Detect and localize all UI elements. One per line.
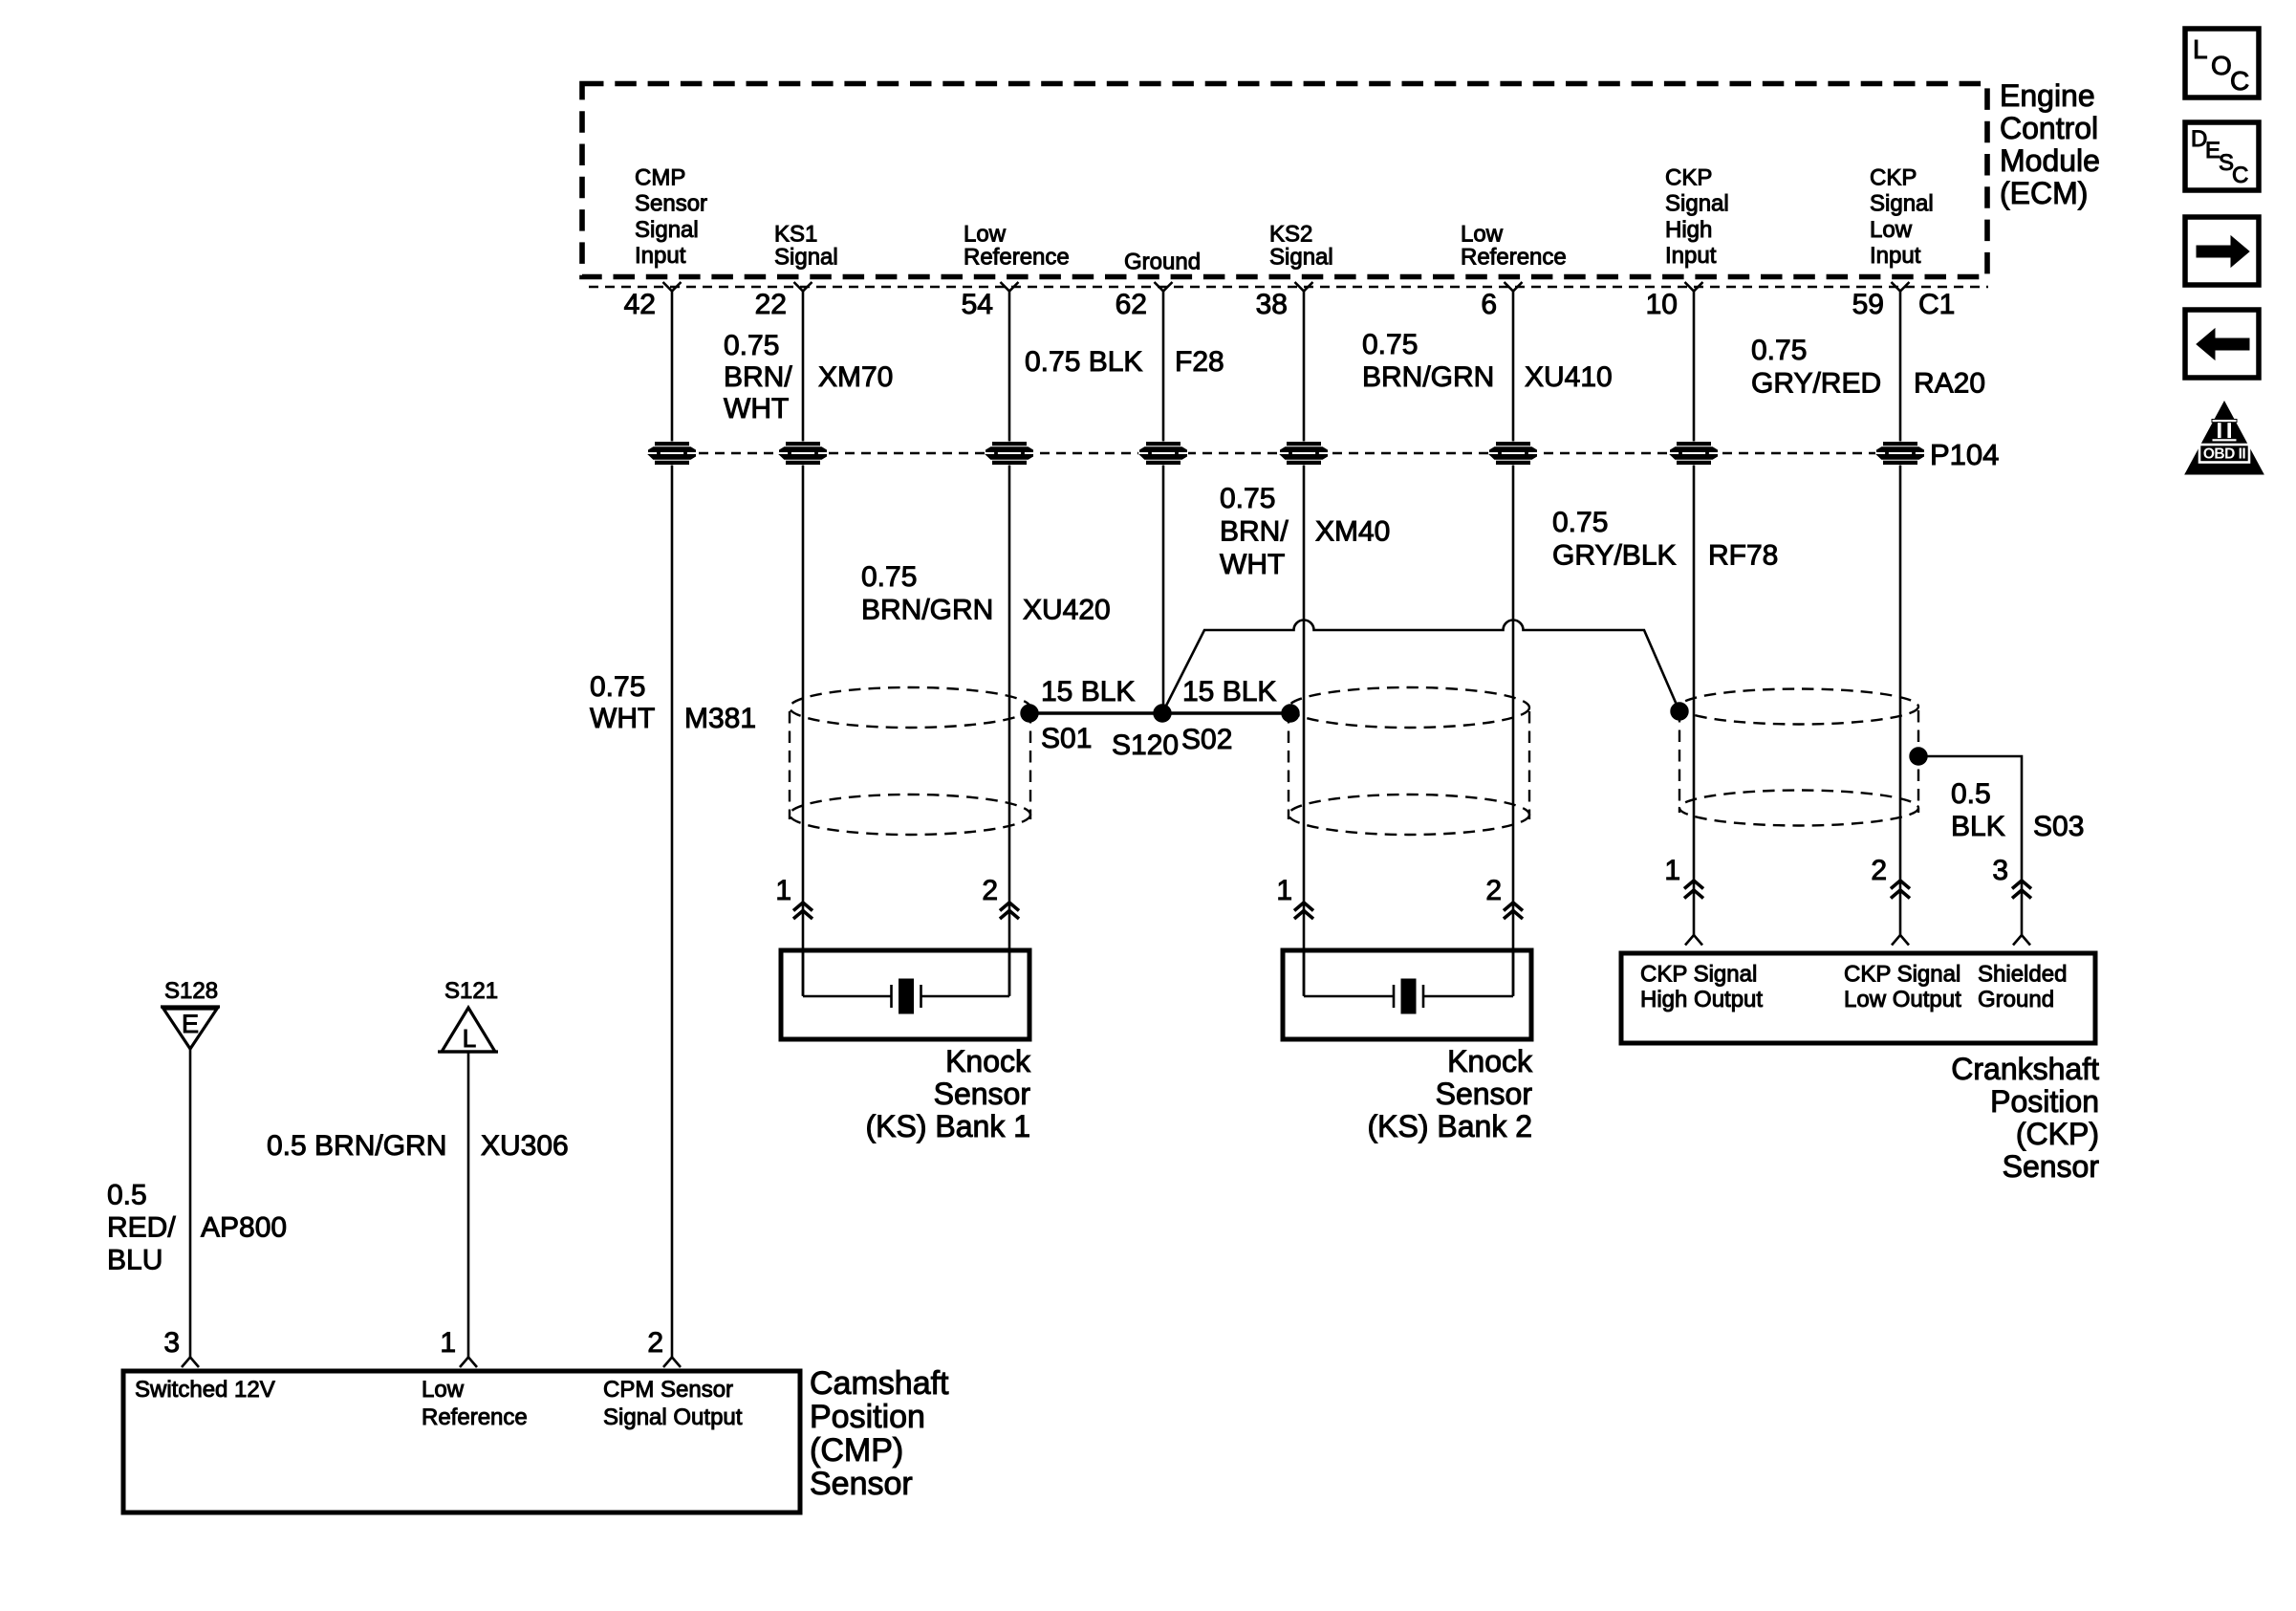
KS2 pin 1 number: [1276, 875, 1292, 906]
svg-text:L: L: [2193, 34, 2208, 64]
svg-text:BRN/: BRN/: [1220, 516, 1289, 548]
svg-text:Ground: Ground: [1978, 987, 2054, 1012]
CKP pin 1 label CKP Signal High Output: [1640, 962, 1763, 1013]
svg-text:1: 1: [1664, 855, 1680, 886]
circuit number F28: [1175, 346, 1224, 378]
ECM pin 42 terminal chevron: [663, 282, 682, 292]
svg-text:XU420: XU420: [1023, 595, 1111, 626]
CKP pin 2 number: [1871, 855, 1887, 886]
inline connector double chevron on CKP wire x=1772: [1684, 881, 1703, 899]
CKP connector male terminal chevron x=1988: [1892, 935, 1909, 946]
svg-text:6: 6: [1481, 289, 1497, 320]
CMP sensor name label: [810, 1365, 949, 1502]
ECM pin 54 terminal chevron: [1001, 282, 1019, 292]
svg-text:1: 1: [775, 875, 791, 906]
svg-text:(CMP): (CMP): [810, 1432, 903, 1469]
svg-text:Low: Low: [422, 1377, 465, 1403]
svg-text:0.5: 0.5: [1951, 778, 1991, 810]
KS1 pin 2 number: [982, 875, 998, 906]
svg-text:Control: Control: [2000, 111, 2098, 145]
ECM pin 59 function label CKP Signal Low Input: [1870, 165, 1934, 270]
CKP cable shield (dashed cylinder): [1679, 689, 1918, 826]
svg-text:0.5: 0.5: [107, 1180, 147, 1211]
svg-text:Signal: Signal: [1870, 191, 1934, 217]
ECM pin 6 number label: [1481, 289, 1497, 320]
svg-text:CKP: CKP: [1870, 165, 1917, 191]
ECM pin 62 function label Ground: [1124, 250, 1201, 275]
splice S120 label: [1112, 729, 1179, 761]
grommet P104 on wire at x=1583: [1488, 442, 1538, 466]
svg-text:(ECM): (ECM): [2000, 176, 2088, 210]
splice pack S121 label: [444, 978, 498, 1004]
CMP pin 1 number: [440, 1327, 456, 1359]
svg-text:Position: Position: [810, 1399, 925, 1435]
svg-text:0.75: 0.75: [1220, 483, 1275, 514]
svg-text:XU410: XU410: [1525, 361, 1613, 393]
CKP pin 1 number: [1664, 855, 1680, 886]
svg-text:Signal: Signal: [1665, 191, 1729, 217]
CMP pin 3 number: [163, 1327, 180, 1359]
svg-text:C: C: [2232, 163, 2248, 188]
splice S01 label: [1041, 723, 1092, 754]
svg-text:XU306: XU306: [481, 1130, 569, 1162]
circuit number XU306: [481, 1130, 569, 1162]
ECM pin 59 terminal chevron: [1892, 282, 1910, 292]
svg-text:Module: Module: [2000, 143, 2100, 178]
svg-text:0.75: 0.75: [724, 330, 779, 361]
svg-text:BRN/GRN: BRN/GRN: [1362, 361, 1494, 393]
svg-text:Knock: Knock: [945, 1044, 1031, 1078]
svg-text:Reference: Reference: [422, 1404, 528, 1430]
svg-text:L: L: [463, 1024, 476, 1053]
ECM pin 38 function label KS2 Signal: [1269, 222, 1333, 271]
svg-text:0.75: 0.75: [1362, 329, 1418, 360]
svg-text:Input: Input: [635, 243, 686, 269]
circuit number RA20: [1914, 368, 1985, 400]
svg-text:15 BLK: 15 BLK: [1041, 676, 1135, 708]
wire XM70 0.75 BRN/WHT (KS1 signal, pin 22 to KS1): [802, 291, 805, 995]
wire AP800 0.5 RED/BLU (S128 to CMP pin 3): [189, 1049, 192, 1357]
KS1 cable shield (dashed cylinder): [790, 687, 1030, 835]
ECM module U1 dashed outline: [582, 84, 1987, 277]
svg-text:1: 1: [1276, 875, 1292, 906]
svg-text:Sensor: Sensor: [635, 191, 707, 217]
grommet P104 on wire at x=1364: [1279, 442, 1329, 466]
svg-text:F28: F28: [1175, 346, 1224, 378]
svg-text:S01: S01: [1041, 723, 1092, 754]
inline connector double chevron on wire x=840: [793, 903, 812, 919]
svg-text:High: High: [1665, 217, 1712, 243]
svg-text:O: O: [2211, 51, 2232, 80]
svg-text:Ground: Ground: [1124, 250, 1201, 275]
wire label 0.5 BLK (S03): [1951, 778, 2005, 842]
svg-text:22: 22: [755, 289, 787, 320]
svg-text:CKP Signal: CKP Signal: [1640, 962, 1757, 988]
svg-text:(KS) Bank 1: (KS) Bank 1: [865, 1109, 1030, 1143]
wire RF78 0.75 GRY/BLK (CKP high, pin 10 to CKP sensor): [1693, 291, 1696, 936]
wire label 15 BLK (left): [1041, 676, 1135, 708]
CKP pin 3 number: [1992, 855, 2008, 886]
grommet P104 on wire at x=1988: [1875, 442, 1925, 466]
CKP sensor name label: [1951, 1052, 2099, 1184]
svg-text:S121: S121: [444, 978, 498, 1004]
ECM pin 10 function label CKP Signal High Input: [1665, 165, 1729, 270]
svg-text:Input: Input: [1870, 243, 1921, 269]
KS2 pin 2 number: [1485, 875, 1502, 906]
CMP pin 3 male terminal chevron: [182, 1358, 199, 1368]
splice S01 dot: [1021, 705, 1038, 722]
svg-text:54: 54: [962, 289, 993, 320]
svg-text:Engine: Engine: [2000, 78, 2095, 113]
KS Bank 1 name label: [865, 1044, 1031, 1143]
inline connector double chevron on CKP wire x=2115: [2012, 881, 2031, 899]
svg-text:2: 2: [982, 875, 998, 906]
svg-text:59: 59: [1852, 289, 1884, 320]
inline connector double chevron on wire x=1056: [1000, 903, 1019, 919]
ECM pin 54 number label: [962, 289, 993, 320]
wire label 0.5 RED/BLU (AP800): [107, 1180, 176, 1276]
CKP connector male terminal chevron x=1772: [1685, 935, 1702, 946]
svg-text:2: 2: [1485, 875, 1502, 906]
splice S120 dot: [1154, 705, 1171, 722]
grommet label P104: [1930, 438, 1999, 471]
svg-text:Reference: Reference: [1461, 245, 1567, 271]
svg-text:C1: C1: [1918, 289, 1955, 320]
svg-text:Sensor: Sensor: [1436, 1077, 1533, 1111]
connector designator C1 label: [1918, 289, 1955, 320]
wire XU420 0.75 BRN/GRN (low reference, pin 54 to KS1): [1008, 291, 1011, 995]
ground G S128 label: [164, 978, 218, 1004]
svg-text:KS2: KS2: [1269, 222, 1312, 248]
wire label 0.75 GRY/RED (RA20): [1751, 335, 1881, 400]
wire label 0.75 BRN/WHT (XM70): [724, 330, 792, 425]
svg-text:Sensor: Sensor: [2003, 1149, 2100, 1184]
ECM pin 38 number label: [1256, 289, 1288, 320]
ECM pin 10 terminal chevron: [1685, 282, 1703, 292]
svg-text:0.75: 0.75: [861, 561, 917, 593]
circuit number XM70: [818, 361, 893, 393]
CKP pin 3 label Shielded Ground: [1978, 962, 2067, 1013]
svg-text:0.75: 0.75: [1751, 335, 1807, 366]
icon OBD II warning triangle: [2185, 402, 2264, 474]
svg-text:BLK: BLK: [1951, 811, 2005, 842]
circuit number RF78: [1708, 540, 1778, 572]
svg-text:10: 10: [1646, 289, 1678, 320]
shield junction dot S03 at CKP shield right: [1910, 748, 1927, 765]
ECM pin 42 function label CMP Sensor Signal Input: [635, 165, 707, 270]
KS2 cable shield (dashed cylinder): [1289, 687, 1529, 835]
svg-text:15 BLK: 15 BLK: [1182, 676, 1276, 708]
svg-text:Input: Input: [1665, 243, 1717, 269]
wire ground riser S120 to shield bus: [1162, 620, 1679, 714]
svg-text:S120: S120: [1112, 729, 1179, 761]
svg-text:Knock: Knock: [1447, 1044, 1533, 1078]
ECM name label: [2000, 78, 2100, 210]
grommet P104 on wire at x=840: [778, 442, 828, 466]
svg-text:Low: Low: [964, 222, 1007, 248]
svg-text:XM70: XM70: [818, 361, 893, 393]
svg-text:Signal: Signal: [1269, 245, 1333, 271]
knock sensor KS Bank 2 box with piezo element: [1283, 950, 1531, 1039]
icon forward arrow button: [2185, 217, 2259, 285]
wire label 0.5 BRN/GRN (XU306): [267, 1130, 446, 1162]
wire 15 BLK splice bus S01-S120-S02: [1029, 711, 1290, 715]
svg-text:Signal Output: Signal Output: [603, 1404, 743, 1430]
ECM pin 59 number label: [1852, 289, 1884, 320]
ECM pin 38 terminal chevron: [1295, 282, 1313, 292]
wire label 0.75 BRN/GRN (XU420): [861, 561, 993, 626]
wire XU410 0.75 BRN/GRN (low reference, pin 6 to KS2): [1512, 291, 1515, 995]
splice pack symbol S121 (triangle with L): [438, 1008, 498, 1053]
inline connector double chevron on wire x=1583: [1504, 903, 1523, 919]
ECM pin 10 number label: [1646, 289, 1678, 320]
svg-text:XM40: XM40: [1315, 516, 1390, 548]
grommet P104 on wire at x=1056: [985, 442, 1034, 466]
wire XM40 0.75 BRN/WHT (KS2 signal, pin 38 to KS2): [1303, 291, 1306, 995]
CKP pin 2 label CKP Signal Low Output: [1844, 962, 1961, 1013]
wire label 0.75 BRN/WHT (XM40): [1220, 483, 1289, 580]
ECM pin 42 number label: [624, 289, 656, 320]
crankshaft position CKP sensor box: [1621, 953, 2095, 1043]
wire S03 0.5 BLK (shield drain to CKP pin 3): [1918, 756, 2022, 936]
CMP pin 2 male terminal chevron: [663, 1358, 681, 1368]
svg-text:0.75 BLK: 0.75 BLK: [1025, 346, 1142, 378]
ECM connector C1 boundary dashed line: [589, 286, 1988, 288]
circuit number XU410: [1525, 361, 1613, 393]
svg-text:RED/: RED/: [107, 1212, 176, 1244]
svg-text:Low: Low: [1461, 222, 1504, 248]
svg-text:RF78: RF78: [1708, 540, 1778, 572]
svg-text:WHT: WHT: [590, 703, 655, 734]
svg-text:Reference: Reference: [964, 245, 1070, 271]
svg-text:S02: S02: [1181, 724, 1232, 755]
svg-text:Signal: Signal: [774, 245, 838, 271]
icon back arrow button: [2185, 310, 2259, 378]
svg-text:Switched 12V: Switched 12V: [135, 1377, 275, 1403]
svg-text:Sensor: Sensor: [810, 1466, 913, 1502]
svg-text:BRN/: BRN/: [724, 361, 792, 393]
CMP pin 3 label Switched 12V: [135, 1377, 275, 1403]
svg-text:62: 62: [1116, 289, 1147, 320]
svg-text:S128: S128: [164, 978, 218, 1004]
circuit number M381: [684, 703, 756, 734]
wire XU306 0.5 BRN/GRN (S121 to CMP pin 1): [467, 1052, 470, 1357]
ECM pin 22 function label KS1 Signal: [774, 222, 838, 271]
inline connector double chevron on wire x=1364: [1294, 903, 1313, 919]
svg-text:0.75: 0.75: [1552, 507, 1608, 538]
svg-text:42: 42: [624, 289, 656, 320]
camshaft position CMP sensor box: [123, 1371, 800, 1513]
svg-text:Shielded: Shielded: [1978, 962, 2067, 988]
wire F28 0.75 BLK (ground, pin 62 to splice S120): [1162, 291, 1165, 713]
icon DESC button: [2185, 122, 2259, 190]
svg-text:Signal: Signal: [635, 217, 699, 243]
svg-text:Low Output: Low Output: [1844, 987, 1961, 1012]
wire label 0.75 BRN/GRN (XU410): [1362, 329, 1494, 393]
circuit number AP800: [201, 1212, 287, 1244]
svg-text:E: E: [182, 1010, 199, 1038]
svg-text:OBD II: OBD II: [2203, 446, 2246, 463]
svg-text:CKP Signal: CKP Signal: [1844, 962, 1960, 988]
svg-text:2: 2: [1871, 855, 1887, 886]
svg-text:BLU: BLU: [107, 1245, 162, 1276]
svg-text:CKP: CKP: [1665, 165, 1712, 191]
wire label 0.75 GRY/BLK (RF78): [1552, 507, 1677, 572]
svg-text:WHT: WHT: [724, 393, 789, 425]
svg-text:Position: Position: [1990, 1084, 2099, 1119]
svg-text:2: 2: [647, 1327, 663, 1359]
KS1 pin 1 number: [775, 875, 791, 906]
ECM pin 6 terminal chevron: [1505, 282, 1523, 292]
grommet P104 on wire at x=1217: [1138, 442, 1188, 466]
splice S02 label: [1181, 724, 1232, 755]
KS Bank 2 name label: [1367, 1044, 1533, 1143]
svg-text:WHT: WHT: [1220, 549, 1285, 580]
wire label 0.75 BLK (F28): [1025, 346, 1142, 378]
svg-text:38: 38: [1256, 289, 1288, 320]
ECM pin 62 terminal chevron: [1155, 282, 1173, 292]
CMP pin 2 number: [647, 1327, 663, 1359]
ECM pin 62 number label: [1116, 289, 1147, 320]
svg-text:KS1: KS1: [774, 222, 817, 248]
svg-text:C: C: [2230, 66, 2249, 96]
circuit number XM40: [1315, 516, 1390, 548]
splice S02 dot: [1282, 705, 1299, 722]
icon LOC button: [2185, 29, 2259, 98]
CMP pin 2 label CPM Sensor Signal Output: [603, 1377, 743, 1430]
ground symbol S128 (triangle with E): [161, 1007, 220, 1049]
circuit number XU420: [1023, 595, 1111, 626]
svg-text:GRY/BLK: GRY/BLK: [1552, 540, 1677, 572]
CMP pin 1 male terminal chevron: [460, 1358, 477, 1368]
circuit number S03: [2033, 811, 2084, 842]
svg-text:Sensor: Sensor: [934, 1077, 1031, 1111]
svg-text:Camshaft: Camshaft: [810, 1365, 949, 1402]
ECM pin 6 function label Low Reference: [1461, 222, 1567, 271]
svg-text:BRN/GRN: BRN/GRN: [861, 595, 993, 626]
ECM pin 22 number label: [755, 289, 787, 320]
knock sensor KS Bank 1 box with piezo element: [781, 950, 1029, 1039]
CMP pin 1 label Low Reference: [422, 1377, 528, 1430]
svg-text:(CKP): (CKP): [2016, 1117, 2099, 1151]
svg-text:High Output: High Output: [1640, 987, 1763, 1012]
ECM pin 54 function label Low Reference: [964, 222, 1070, 271]
svg-text:CPM Sensor: CPM Sensor: [603, 1377, 733, 1403]
CKP connector male terminal chevron x=2115: [2013, 935, 2030, 946]
svg-text:0.75: 0.75: [590, 671, 645, 703]
wire RA20 0.75 GRY/RED (CKP low, pin 59 to CKP sensor): [1899, 291, 1902, 936]
ECM pin 22 terminal chevron: [794, 282, 812, 292]
wire M381 0.75 WHT (CMP signal, pin 42 to CMP sensor): [671, 291, 674, 1357]
svg-text:0.5 BRN/GRN: 0.5 BRN/GRN: [267, 1130, 446, 1162]
svg-text:RA20: RA20: [1914, 368, 1985, 400]
svg-text:P104: P104: [1930, 438, 1999, 471]
harness pass-through P104 dashed line: [650, 452, 1921, 454]
svg-text:Low: Low: [1870, 217, 1913, 243]
svg-text:(KS) Bank 2: (KS) Bank 2: [1367, 1109, 1532, 1143]
svg-text:1: 1: [440, 1327, 456, 1359]
grommet P104 on wire at x=703: [647, 442, 697, 466]
svg-text:AP800: AP800: [201, 1212, 287, 1244]
wire label 0.75 WHT (M381): [590, 671, 655, 734]
svg-text:3: 3: [1992, 855, 2008, 886]
wire label 15 BLK (right): [1182, 676, 1276, 708]
svg-text:GRY/RED: GRY/RED: [1751, 368, 1881, 400]
grommet P104 on wire at x=1772: [1669, 442, 1719, 466]
svg-text:M381: M381: [684, 703, 756, 734]
svg-text:S03: S03: [2033, 811, 2084, 842]
inline connector double chevron on CKP wire x=1988: [1891, 881, 1910, 899]
svg-text:CMP: CMP: [635, 165, 685, 191]
svg-text:Crankshaft: Crankshaft: [1951, 1052, 2099, 1086]
svg-text:3: 3: [163, 1327, 180, 1359]
shield junction dot at CKP shield left: [1671, 703, 1688, 720]
